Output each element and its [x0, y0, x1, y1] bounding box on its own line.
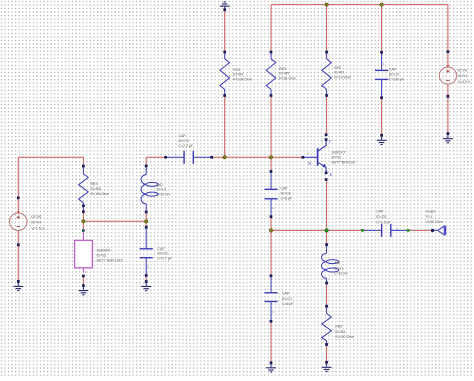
svg-text:ID=R5: ID=R5	[279, 72, 289, 76]
svg-text:V=1.5 V: V=1.5 V	[31, 226, 44, 230]
svg-text:C=8 pF: C=8 pF	[282, 302, 294, 306]
svg-text:V=3.3 V: V=3.3 V	[458, 80, 471, 84]
svg-text:R=10k Ohm: R=10k Ohm	[233, 78, 252, 82]
svg-text:C=1.5 pF: C=1.5 pF	[376, 220, 391, 224]
svg-text:RES: RES	[335, 325, 343, 329]
svg-text:NET="SMV1232": NET="SMV1232"	[97, 259, 125, 263]
svg-text:C=8 pF: C=8 pF	[281, 197, 293, 201]
svg-text:R=10k Ohm: R=10k Ohm	[91, 192, 110, 196]
svg-text:SUBCKT: SUBCKT	[97, 249, 112, 253]
svg-text:RES: RES	[91, 182, 99, 186]
svg-text:E: E	[330, 172, 333, 177]
svg-text:DCVS: DCVS	[458, 68, 468, 72]
svg-text:CAP: CAP	[179, 134, 187, 138]
svg-text:ID=C1: ID=C1	[282, 297, 292, 301]
svg-text:C: C	[329, 138, 332, 143]
svg-text:ID=C4: ID=C4	[389, 73, 399, 77]
svg-text:ID=C3: ID=C3	[179, 139, 189, 143]
svg-text:L=33 nH: L=33 nH	[334, 272, 348, 276]
svg-text:ID=R4: ID=R4	[233, 73, 243, 77]
svg-text:ID=L1: ID=L1	[334, 266, 343, 270]
svg-text:L=10 nH: L=10 nH	[157, 192, 171, 196]
svg-text:ID=V1: ID=V1	[458, 74, 468, 78]
svg-text:ID=C6: ID=C6	[158, 252, 168, 256]
svg-text:C=100 pF: C=100 pF	[389, 77, 404, 81]
svg-text:CAP: CAP	[389, 68, 397, 72]
svg-text:CAP: CAP	[282, 292, 290, 296]
svg-text:RES: RES	[233, 68, 241, 72]
svg-text:NET="BFR193": NET="BFR193"	[332, 160, 357, 164]
svg-text:RES: RES	[334, 66, 342, 70]
svg-text:C=2.7 pF: C=2.7 pF	[158, 256, 173, 260]
svg-text:ID=L4: ID=L4	[157, 188, 166, 192]
svg-text:R=10 Ohm: R=10 Ohm	[334, 76, 351, 80]
svg-text:DCVS: DCVS	[31, 215, 41, 219]
svg-text:ID=R7: ID=R7	[334, 71, 344, 75]
svg-text:ID=S1: ID=S1	[332, 155, 342, 159]
svg-text:CAP: CAP	[158, 247, 166, 251]
svg-text:P=1: P=1	[426, 215, 432, 219]
svg-text:ID=C8: ID=C8	[281, 192, 291, 196]
svg-text:ID=S2: ID=S2	[97, 254, 107, 258]
svg-text:IND: IND	[334, 261, 341, 265]
svg-text:RES: RES	[279, 67, 287, 71]
svg-text:C=2.2 pF: C=2.2 pF	[179, 144, 194, 148]
svg-text:R=200 Ohm: R=200 Ohm	[335, 335, 354, 339]
svg-text:ID=R3: ID=R3	[335, 330, 345, 334]
svg-text:ID=R8: ID=R8	[91, 187, 101, 191]
svg-text:PORT: PORT	[426, 210, 437, 214]
svg-text:R=3k Ohm: R=3k Ohm	[279, 77, 296, 81]
svg-text:SUBCKT: SUBCKT	[332, 150, 347, 154]
svg-text:ID=V4: ID=V4	[31, 221, 41, 225]
svg-text:ID=C5: ID=C5	[376, 215, 386, 219]
svg-text:Z=50 Ohm: Z=50 Ohm	[426, 220, 443, 224]
svg-text:CAP: CAP	[281, 186, 289, 190]
svg-text:CAP: CAP	[376, 210, 384, 214]
svg-text:B: B	[308, 161, 311, 166]
svg-text:IND: IND	[157, 183, 164, 187]
